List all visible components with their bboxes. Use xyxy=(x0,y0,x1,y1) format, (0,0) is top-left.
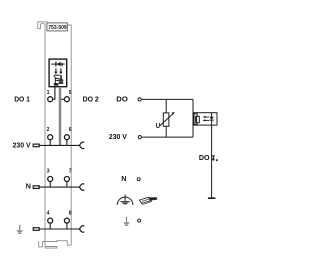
wire DO top xyxy=(141,98,193,100)
fork contact earth xyxy=(80,226,85,233)
terminal 3 xyxy=(48,177,53,182)
svg-text:753-509: 753-509 xyxy=(48,25,66,31)
terminal 8 xyxy=(64,218,69,223)
230V bus line xyxy=(39,144,79,146)
svg-text:230 V: 230 V xyxy=(13,140,31,149)
svg-text:N: N xyxy=(121,174,126,183)
label box 753-509 xyxy=(47,23,67,31)
connector rect 230V xyxy=(33,144,39,147)
wire right loop vertical xyxy=(192,99,194,137)
svg-text:8: 8 xyxy=(69,210,72,216)
module outline top hook xyxy=(38,22,48,29)
terminal 2 stem xyxy=(49,140,51,146)
module bottom profile step line xyxy=(43,241,72,246)
wire DO output xyxy=(211,120,213,198)
ground bar xyxy=(208,197,216,199)
SSR triac contact xyxy=(193,114,199,125)
svg-text:7: 7 xyxy=(69,169,72,175)
svg-text:3: 3 xyxy=(47,169,50,175)
connector rect earth xyxy=(33,228,39,231)
wire 230V bottom xyxy=(141,136,193,138)
icon box U1 xyxy=(49,59,67,87)
svg-text:2: 2 xyxy=(47,127,50,133)
svg-text:4: 4 xyxy=(47,210,50,216)
svg-text:1: 1 xyxy=(47,90,50,96)
terminal 1 xyxy=(48,97,53,102)
wire varistor branch xyxy=(165,99,167,137)
earth arrow left xyxy=(16,225,23,234)
rail earth symbol xyxy=(117,195,133,205)
svg-text:DO 1: DO 1 xyxy=(14,94,30,103)
earth arrow middle xyxy=(123,217,130,226)
terminal 4 xyxy=(48,218,53,223)
module bottom profile foot xyxy=(39,241,43,247)
svg-text:230 V: 230 V xyxy=(109,132,127,141)
svg-text:DO: DO xyxy=(116,94,128,103)
varistor RV1 xyxy=(163,113,169,126)
node DO circle xyxy=(138,98,141,101)
wire from thick bus to terminal 5 xyxy=(61,98,64,100)
terminal 7 xyxy=(64,177,69,182)
icon: LED diode line xyxy=(51,63,65,65)
svg-text:N: N xyxy=(26,181,31,190)
fork contact N xyxy=(80,184,85,191)
SSR arrows xyxy=(205,116,210,118)
module top right segment xyxy=(67,25,71,245)
internal bus thick wire xyxy=(59,87,62,146)
earth bus line xyxy=(39,228,79,230)
terminal 8 stem xyxy=(66,223,68,229)
svg-text:5: 5 xyxy=(69,90,72,96)
svg-text:U: U xyxy=(156,121,160,130)
terminal 6 stem xyxy=(66,140,68,146)
svg-text:DO 2: DO 2 xyxy=(83,94,99,103)
terminal 4 stem xyxy=(49,223,51,229)
wire from icon box to terminal 1 xyxy=(53,87,55,99)
terminal 5 xyxy=(64,97,69,102)
terminal 6 xyxy=(64,135,69,140)
node earth circle xyxy=(138,219,141,222)
module left edge xyxy=(44,25,46,249)
node 230V circle xyxy=(138,136,141,139)
module bottom profile slab xyxy=(45,247,57,249)
icon: triac glyph xyxy=(54,75,63,83)
terminal 2 xyxy=(48,135,53,140)
N bus line xyxy=(39,186,79,188)
svg-text:DO: DO xyxy=(199,153,210,162)
SSR box xyxy=(194,113,217,125)
connector rect N xyxy=(33,186,39,189)
DO output tap symbol xyxy=(212,156,218,161)
terminal 7 stem xyxy=(66,182,68,188)
power jumper blade icon xyxy=(140,197,158,204)
fork contact 230V xyxy=(80,142,85,149)
SSR LED xyxy=(211,113,213,117)
svg-text:6: 6 xyxy=(69,127,72,133)
node N circle xyxy=(137,178,140,181)
terminal 3 stem xyxy=(49,182,51,188)
icon: optocoupler arrows down xyxy=(55,68,57,71)
